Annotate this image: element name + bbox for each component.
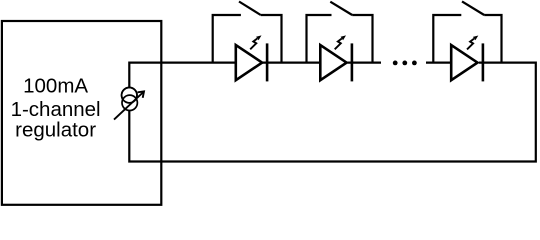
switch S3 (bypass, open) — [433, 1, 501, 62]
LED D3 — [451, 36, 483, 82]
wire: main loop (top rail to D1, right edge, bottom return, current-source branch) — [129, 63, 536, 162]
wire: from LED D2 toward ellipsis — [347, 61, 381, 63]
switch S1 (bypass, open) — [213, 2, 282, 63]
svg-text:1-channel: 1-channel — [11, 98, 101, 121]
wire: between LED D1 and LED D2 — [262, 61, 320, 63]
switch S2 (bypass, open) — [307, 2, 373, 63]
LED D2 — [320, 35, 352, 81]
current source I1 (variable) — [114, 88, 144, 120]
ellipsis (continuation dots) — [393, 61, 417, 66]
regulator box U1 — [2, 21, 161, 205]
wire: from ellipsis to LED D3 — [426, 61, 451, 63]
svg-text:100mA: 100mA — [23, 75, 88, 98]
svg-text:regulator: regulator — [15, 119, 96, 142]
LED D1 — [236, 35, 267, 81]
